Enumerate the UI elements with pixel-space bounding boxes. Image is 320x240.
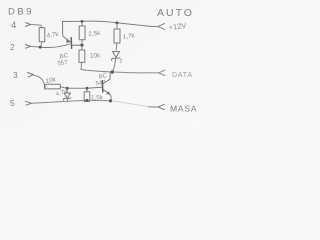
svg-text:3: 3 [13, 70, 18, 80]
svg-text:2: 2 [10, 42, 15, 52]
svg-text:4: 4 [11, 20, 16, 31]
svg-text:1,5k: 1,5k [91, 95, 104, 102]
svg-text:DB9: DB9 [8, 7, 34, 18]
svg-text:5: 5 [10, 98, 15, 108]
svg-text:10k: 10k [90, 53, 101, 60]
svg-text:AUTO: AUTO [157, 7, 194, 19]
svg-text:DATA: DATA [172, 72, 193, 79]
svg-text:2,5k: 2,5k [88, 30, 101, 38]
svg-text:z: z [120, 59, 123, 65]
svg-text:MASA: MASA [170, 104, 197, 114]
